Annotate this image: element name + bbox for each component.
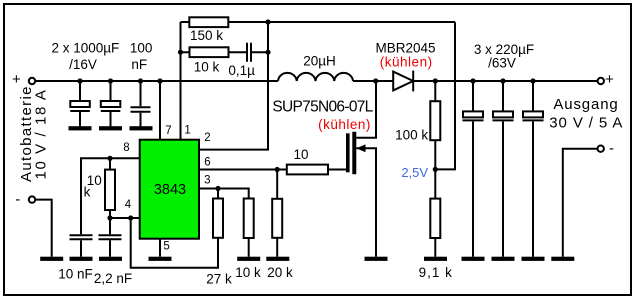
wire 10nF bottom lead	[80, 240, 82, 256]
capacitor C1 1000uF	[70, 101, 90, 111]
ground C2 top row	[99, 126, 122, 130]
diode MBR2045	[393, 71, 413, 92]
svg-text:0,1µ: 0,1µ	[228, 63, 255, 78]
svg-text:k: k	[84, 185, 91, 200]
node comp top	[265, 19, 270, 24]
wire output minus	[563, 149, 598, 257]
wire pin1 COMP vertical	[180, 22, 182, 140]
wire 10k RT vertical	[109, 158, 111, 218]
svg-text:10 k: 10 k	[235, 265, 261, 280]
resistor R 20k	[272, 199, 282, 238]
wire pin7 VCC	[159, 81, 161, 140]
terminal input minus	[29, 196, 35, 202]
capacitor C2 1000uF	[101, 101, 121, 111]
ground MOSFET source	[365, 257, 388, 261]
resistor R 10 gate	[287, 165, 328, 175]
inductor L1 20uH	[278, 73, 353, 81]
terminal output plus	[598, 78, 604, 84]
wire pin6 OUT	[199, 169, 287, 171]
node rail C3	[138, 78, 143, 83]
svg-text:30 V / 5 A: 30 V / 5 A	[549, 115, 623, 132]
node pin8 10k	[107, 156, 112, 161]
wire 20k lead	[276, 170, 278, 257]
svg-text:9,1 k: 9,1 k	[419, 265, 453, 280]
ground C4	[462, 257, 485, 261]
ground 9,1k	[424, 257, 447, 261]
ground C5	[492, 257, 515, 261]
terminal input plus	[29, 78, 35, 84]
svg-text:4: 4	[125, 199, 132, 211]
ground 10k CS	[237, 257, 260, 261]
resistor R 10k CS	[244, 199, 254, 239]
svg-text:Ausgang: Ausgang	[553, 96, 618, 113]
svg-text:20µH: 20µH	[303, 54, 336, 69]
svg-text:/16V: /16V	[69, 57, 97, 72]
ground C3 top row	[130, 126, 153, 130]
ground C6	[522, 257, 545, 261]
ground pin5	[149, 257, 172, 261]
capacitor C4 220uF	[463, 111, 484, 120]
wire output cap C6 leads	[532, 81, 534, 257]
svg-text:150 k: 150 k	[190, 28, 223, 43]
resistor R 100k	[430, 101, 440, 140]
svg-text:2: 2	[204, 132, 210, 144]
wire pin4 line	[110, 217, 139, 219]
svg-text:8: 8	[123, 142, 129, 154]
node 20k pin6	[275, 167, 280, 172]
svg-text:-: -	[609, 140, 614, 157]
resistor R 10k comp	[190, 47, 229, 57]
ground 20k	[266, 257, 289, 261]
transistor Q1 channel bar	[352, 132, 356, 175]
svg-text:100: 100	[130, 40, 153, 55]
node C5 rail	[500, 78, 505, 83]
resistor R 9,1k	[430, 199, 440, 238]
node 100k rail	[433, 78, 438, 83]
node C6 rail	[530, 78, 535, 83]
wire MOSFET source	[356, 148, 376, 256]
svg-text:27 k: 27 k	[206, 272, 232, 287]
svg-text:(kühlen): (kühlen)	[380, 54, 433, 69]
node 2,5V	[433, 167, 438, 172]
svg-text:+: +	[12, 71, 21, 88]
svg-text:2,2 nF: 2,2 nF	[94, 271, 132, 286]
svg-text:nF: nF	[131, 57, 147, 72]
wire 100k 9.1k chain	[434, 81, 436, 257]
ground input minus	[40, 257, 63, 261]
wire 2.2nF leads	[109, 218, 111, 257]
wire MOSFET drain	[356, 82, 376, 138]
svg-text:2 x 1000µF: 2 x 1000µF	[51, 40, 119, 55]
svg-text:(kühlen): (kühlen)	[318, 117, 371, 132]
wire pin8 VREF to 10nF	[81, 158, 139, 234]
resistor R 27k	[213, 199, 223, 238]
node comp left	[178, 50, 183, 55]
wire input + rail	[35, 80, 278, 82]
svg-text:10 V / 18 A: 10 V / 18 A	[33, 89, 50, 180]
svg-text:20 k: 20 k	[267, 265, 293, 280]
ground output minus	[551, 257, 574, 261]
svg-text:-: -	[15, 191, 20, 208]
transistor Q1 body arrow	[356, 144, 365, 152]
resistor R 10k RT	[105, 170, 115, 210]
svg-text:7: 7	[165, 125, 171, 137]
svg-text:+: +	[605, 71, 614, 88]
node C4 rail	[470, 78, 475, 83]
wire cap C2 leads	[110, 81, 112, 127]
capacitor 0,1u plates	[247, 43, 251, 62]
svg-text:2,5V: 2,5V	[401, 165, 428, 180]
wire 27k to pin4 loop	[131, 189, 218, 268]
node drain rail	[373, 78, 378, 83]
svg-text:3: 3	[204, 175, 210, 187]
wire pin3 CS to 10k	[199, 189, 249, 257]
capacitor 2,2nF plates	[99, 235, 122, 239]
wire pin5 GND	[159, 239, 161, 257]
transistor Q1 SUP75N06-07L gate bar	[346, 133, 350, 172]
wire 10k/0.1u branch	[181, 51, 269, 53]
capacitor C6 220uF	[523, 111, 544, 120]
node pin4 right	[128, 215, 133, 220]
svg-text:3843: 3843	[154, 182, 186, 198]
resistor R 150k	[189, 17, 228, 27]
capacitor C3 100nF	[131, 107, 151, 111]
wire cap C1 leads	[79, 81, 81, 127]
svg-text:10 nF: 10 nF	[58, 267, 93, 282]
capacitor 10nF plates	[70, 235, 93, 239]
node pin4 left	[107, 215, 112, 220]
ground 2,2nF	[99, 257, 122, 261]
node rail pin7	[157, 78, 162, 83]
svg-text:10: 10	[293, 147, 308, 162]
wire feedback to 2.5V node	[435, 22, 455, 169]
node rail C2	[108, 78, 113, 83]
wire cap C3 leads	[140, 81, 142, 127]
wire MOSFET gate lead	[328, 169, 346, 171]
node comp right	[265, 50, 270, 55]
svg-text:6: 6	[204, 156, 210, 168]
node dots	[77, 19, 535, 220]
svg-text:SUP75N06-07L: SUP75N06-07L	[272, 98, 373, 115]
svg-text:1: 1	[184, 125, 190, 137]
ground 10nF	[70, 257, 93, 261]
terminal output minus	[598, 146, 604, 152]
wire output rail	[353, 80, 598, 82]
wire output cap C5 leads	[502, 81, 504, 257]
wire pin2 VFB path	[199, 22, 268, 150]
ground C1 top row	[69, 126, 92, 130]
wire input minus	[35, 200, 52, 257]
svg-text:100 k: 100 k	[395, 128, 428, 143]
node 27k pin3	[215, 186, 220, 191]
svg-text:/63V: /63V	[488, 56, 516, 71]
node rail C1	[77, 78, 82, 83]
svg-text:5: 5	[163, 241, 169, 253]
wire output cap C4 leads	[472, 81, 474, 257]
svg-text:10 k: 10 k	[194, 59, 220, 74]
wire comp top line	[181, 21, 456, 23]
capacitor C5 220uF	[493, 111, 514, 120]
IC U1 3843	[140, 140, 199, 239]
